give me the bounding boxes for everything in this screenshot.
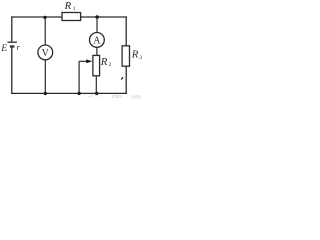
svg-text:3: 3 <box>139 55 142 61</box>
wire voltmeter branch lower <box>44 60 46 94</box>
speck artifact <box>121 77 124 80</box>
svg-text:1: 1 <box>73 6 76 12</box>
wire ammeter branch upper <box>96 17 98 33</box>
svg-text:-t:...: -t:... <box>88 94 104 99</box>
svg-text:V: V <box>42 48 50 59</box>
ammeter A <box>90 33 105 48</box>
resistor R3 <box>122 46 129 66</box>
battery E,r <box>7 42 17 46</box>
svg-text:E: E <box>0 44 7 54</box>
node wiper to bottom wire <box>77 92 80 95</box>
svg-text:R: R <box>100 56 108 68</box>
svg-text:eіto.: eіto. <box>112 94 123 99</box>
wire R2 lower lead <box>95 76 97 94</box>
label R1 <box>64 0 76 12</box>
voltmeter V <box>38 45 53 60</box>
svg-text:R: R <box>64 0 72 12</box>
svg-text:A: A <box>93 36 101 47</box>
node R2 lead to bottom wire <box>95 92 98 95</box>
wire top side <box>11 16 127 18</box>
svg-text:2: 2 <box>109 62 112 68</box>
label R2 <box>100 56 112 68</box>
resistor R1 <box>62 13 81 21</box>
node top wire to ammeter branch <box>95 15 99 19</box>
resistor R2 (rheostat body) <box>93 55 100 75</box>
svg-text:com: com <box>131 95 142 100</box>
wire voltmeter branch upper <box>44 17 46 45</box>
svg-text:R: R <box>131 49 139 61</box>
wire right side <box>125 16 127 94</box>
watermark artifact <box>88 94 141 101</box>
wire bottom side <box>11 92 127 94</box>
wire ammeter to R2 <box>96 47 98 55</box>
rheostat wiper arrow <box>79 59 92 93</box>
svg-text:r: r <box>17 43 21 52</box>
wire left side <box>11 16 13 94</box>
node voltmeter to bottom wire <box>44 92 47 95</box>
label R3 <box>131 49 143 61</box>
node top of voltmeter branch <box>43 16 46 19</box>
